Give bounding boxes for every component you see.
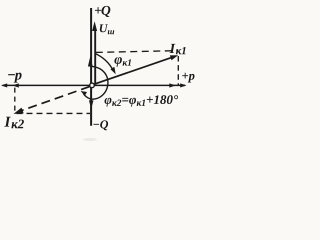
label -p xyxy=(8,73,21,83)
arrowhead projection +p of I_K1 xyxy=(169,83,176,87)
vector I_K1 xyxy=(94,57,173,84)
label phi_K1 xyxy=(114,57,131,67)
arrowhead axis -p end xyxy=(1,83,7,87)
arrowhead projection +Q of I_K1 xyxy=(88,56,93,66)
arrowhead arc phi_K1 xyxy=(110,67,115,74)
arrowhead axis +p end xyxy=(180,83,186,87)
dashed projection bottom horizontal xyxy=(17,112,91,114)
label -Q xyxy=(93,120,108,130)
wire U_sh vector shaft xyxy=(94,30,96,84)
label I_K2 xyxy=(4,117,24,128)
label U_sh xyxy=(100,24,114,34)
label equation phi_K2 = phi_K1 + 180 deg xyxy=(105,95,179,106)
label +p xyxy=(182,73,194,83)
axis p horizontal xyxy=(3,84,186,86)
axis Q vertical xyxy=(90,8,92,126)
arrowhead vector I_K1 tip xyxy=(170,55,178,60)
paper smudge xyxy=(83,138,97,141)
node origin xyxy=(90,83,95,88)
dashed projection top horizontal xyxy=(96,51,179,53)
dashed projection left vertical xyxy=(14,88,16,113)
label +Q xyxy=(95,6,110,17)
label I_K1 xyxy=(169,44,185,54)
arrowhead arc phi_K2 xyxy=(81,91,87,96)
arc phi_K2 xyxy=(83,66,108,99)
dashed projection right vertical xyxy=(177,56,179,85)
arrowhead projection -p of I_K2 xyxy=(12,83,19,87)
arrowhead projection -Q of I_K2 xyxy=(89,100,94,108)
dashed vector I_K2 xyxy=(20,87,90,112)
arrowhead vector I_K2 tip xyxy=(14,108,24,114)
arrowhead vector U_sh tip xyxy=(92,21,97,31)
arc phi_K1 xyxy=(95,53,114,70)
